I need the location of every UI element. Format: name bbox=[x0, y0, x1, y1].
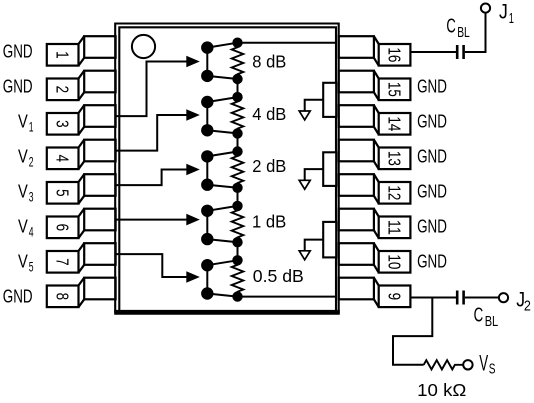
svg-text:1: 1 bbox=[29, 120, 34, 135]
svg-text:C: C bbox=[474, 305, 484, 327]
IC body bottom edge bbox=[114, 310, 340, 315]
svg-text:2: 2 bbox=[29, 155, 34, 170]
node ladder bottom 1 bbox=[232, 74, 242, 84]
pin 15 bbox=[339, 71, 411, 100]
svg-text:1: 1 bbox=[509, 11, 514, 27]
pin 16 bbox=[339, 36, 411, 65]
svg-text:0.5 dB: 0.5 dB bbox=[253, 266, 304, 286]
svg-text:15: 15 bbox=[385, 82, 405, 97]
wire ladder top to pin 16 bbox=[238, 42, 337, 44]
svg-text:3: 3 bbox=[29, 190, 34, 205]
svg-text:8: 8 bbox=[53, 293, 73, 301]
svg-text:13: 13 bbox=[385, 151, 405, 166]
node ladder bottom 2 bbox=[232, 128, 242, 138]
resistor 10k bbox=[424, 360, 463, 369]
svg-text:12: 12 bbox=[385, 185, 405, 200]
svg-text:1 dB: 1 dB bbox=[252, 211, 286, 231]
svg-text:BL: BL bbox=[457, 25, 470, 41]
svg-text:4 dB: 4 dB bbox=[252, 104, 286, 124]
wire V1 (pin 3) to S1 bbox=[116, 62, 187, 117]
wire pin 9 to CBL bbox=[410, 297, 456, 299]
svg-text:3: 3 bbox=[53, 120, 73, 128]
svg-text:7: 7 bbox=[53, 258, 73, 266]
shunt resistor box (pins 15/14) bbox=[323, 83, 336, 117]
pin 6 bbox=[47, 209, 116, 238]
pin 7 bbox=[47, 243, 116, 272]
switch S4 (1 dB bypass) bbox=[202, 206, 237, 245]
svg-text:GND: GND bbox=[417, 75, 447, 96]
wire J2 node to VS resistor bbox=[393, 298, 432, 365]
IC body inner border bbox=[119, 27, 336, 313]
pin 1 indicator circle bbox=[132, 35, 155, 58]
svg-text:V: V bbox=[18, 146, 28, 167]
pin 2 bbox=[47, 71, 116, 100]
svg-text:V: V bbox=[479, 350, 488, 375]
shunt resistor box (pins 13/12) bbox=[323, 152, 336, 186]
switch S5 (0.5 dB bypass) bbox=[202, 260, 237, 299]
wire pin 16 to CBL bbox=[410, 51, 456, 53]
pin 4 bbox=[47, 140, 116, 169]
wire shunt 1 to ground arrow bbox=[305, 100, 324, 111]
source VS terminal bbox=[463, 360, 472, 369]
svg-text:V: V bbox=[18, 251, 28, 272]
svg-text:4: 4 bbox=[29, 225, 34, 240]
svg-text:2: 2 bbox=[524, 299, 531, 315]
capacitor CBL (top) bbox=[456, 45, 459, 59]
svg-text:10 kΩ: 10 kΩ bbox=[417, 380, 466, 400]
svg-text:11: 11 bbox=[385, 220, 405, 235]
svg-text:C: C bbox=[446, 16, 455, 38]
svg-text:GND: GND bbox=[417, 216, 447, 237]
pin 5 bbox=[47, 174, 116, 203]
node ladder top 3 bbox=[232, 146, 242, 156]
node ladder top 5 bbox=[232, 255, 242, 265]
connector J1 bbox=[481, 4, 490, 13]
pin 8 bbox=[47, 278, 116, 307]
svg-text:9: 9 bbox=[385, 293, 405, 301]
svg-text:5: 5 bbox=[29, 260, 34, 275]
capacitor CBL (bottom) bbox=[456, 291, 459, 305]
wire V4 (pin 6) to S4 bbox=[116, 219, 187, 221]
svg-text:GND: GND bbox=[3, 75, 33, 96]
wire ladder segment 4-5 bbox=[237, 242, 239, 260]
svg-text:6: 6 bbox=[53, 224, 73, 232]
wire CBL to J1 bbox=[465, 13, 486, 52]
svg-text:V: V bbox=[18, 111, 28, 132]
wire ladder bottom to pin 9 bbox=[238, 296, 337, 298]
shunt resistor box (pins 11/10) bbox=[323, 222, 336, 258]
svg-text:BL: BL bbox=[485, 314, 499, 330]
ground arrow 1 bbox=[299, 111, 310, 120]
connector J2 bbox=[499, 293, 508, 302]
switch S3 (2 dB bypass) bbox=[202, 151, 237, 190]
svg-text:2 dB: 2 dB bbox=[252, 156, 286, 176]
resistor R1 (8 dB) bbox=[232, 43, 244, 79]
svg-text:5: 5 bbox=[53, 189, 73, 197]
svg-text:S: S bbox=[489, 362, 496, 378]
pin 9 bbox=[339, 278, 411, 307]
svg-text:4: 4 bbox=[53, 155, 73, 163]
pin 14 bbox=[339, 105, 411, 134]
switch S2 (4 dB bypass) bbox=[202, 97, 237, 136]
svg-text:10: 10 bbox=[385, 254, 405, 269]
wire V5 (pin 7) to S5 bbox=[116, 254, 187, 277]
svg-text:GND: GND bbox=[417, 251, 447, 272]
wire shunt 3 to ground arrow bbox=[305, 240, 324, 251]
resistor R4 (1 dB) bbox=[232, 206, 244, 242]
svg-text:2: 2 bbox=[53, 86, 73, 94]
pin 10 bbox=[339, 243, 411, 272]
svg-text:GND: GND bbox=[417, 146, 447, 167]
node ladder bottom 4 bbox=[232, 237, 242, 247]
ground arrow 3 bbox=[299, 251, 310, 260]
IC body outer border bbox=[115, 24, 339, 314]
svg-text:GND: GND bbox=[3, 40, 33, 61]
resistor R3 (2 dB) bbox=[232, 152, 244, 188]
pin 13 bbox=[339, 140, 411, 169]
svg-text:8 dB: 8 dB bbox=[252, 51, 286, 71]
svg-text:14: 14 bbox=[385, 116, 405, 131]
pin 1 bbox=[47, 36, 116, 65]
svg-text:GND: GND bbox=[3, 286, 33, 307]
svg-text:GND: GND bbox=[417, 111, 447, 132]
wire CBL to J2 bbox=[465, 297, 499, 299]
node ladder top 2 bbox=[232, 92, 242, 102]
wire V3 (pin 5) to S3 bbox=[116, 170, 187, 186]
svg-text:16: 16 bbox=[385, 47, 405, 62]
wire ladder segment 2-3 bbox=[237, 133, 239, 151]
svg-text:V: V bbox=[18, 181, 28, 202]
ground arrow 2 bbox=[299, 180, 310, 189]
wire shunt 2 to ground arrow bbox=[305, 169, 324, 180]
node ladder top 4 bbox=[232, 201, 242, 211]
switch S1 (8 dB bypass) bbox=[202, 42, 237, 81]
pin 3 bbox=[47, 105, 116, 134]
resistor R5 (0.5 dB) bbox=[232, 260, 244, 296]
node ladder top 1 bbox=[232, 38, 242, 48]
svg-text:1: 1 bbox=[53, 51, 73, 59]
svg-text:J: J bbox=[499, 1, 508, 24]
node ladder bottom 5 bbox=[232, 291, 242, 301]
wire ladder segment 1-2 bbox=[237, 79, 239, 97]
svg-text:GND: GND bbox=[417, 181, 447, 202]
pin 12 bbox=[339, 174, 411, 203]
svg-text:V: V bbox=[18, 216, 28, 237]
wire ladder segment 3-4 bbox=[237, 188, 239, 206]
resistor R2 (4 dB) bbox=[232, 97, 244, 133]
wire V2 (pin 4) to S2 bbox=[116, 115, 187, 151]
pin 11 bbox=[339, 209, 411, 238]
node ladder bottom 3 bbox=[232, 183, 242, 193]
